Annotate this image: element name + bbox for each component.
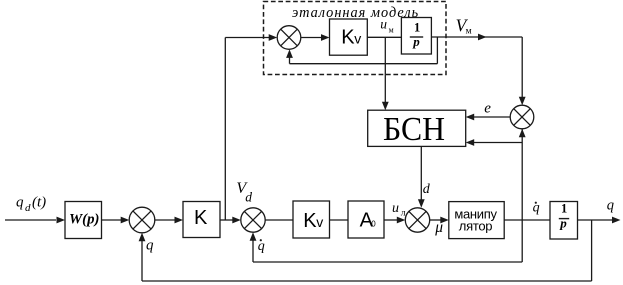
block Kv bottom [293,201,330,238]
wire Kv top to 1/p top, signal u_m [367,36,401,38]
svg-text:л: л [401,208,406,218]
wire S5 to BSN, signal e [474,116,511,118]
svg-text:K: K [341,27,355,49]
svg-text:1: 1 [561,202,567,216]
svg-text:0: 0 [371,220,376,229]
block BSN [368,110,466,146]
wire BSN output d down to S3 [420,146,422,199]
svg-text:1: 1 [414,20,420,34]
summing junction S5 (e) [510,105,534,129]
wire S1 to K [155,219,175,221]
svg-text:d: d [245,189,252,204]
svg-text:q: q [607,197,614,213]
wire u_m branch down to BSN [384,37,386,102]
svg-text:БСН: БСН [383,111,445,148]
summing junction S3 (mu) [405,208,429,232]
dashed box reference model [264,2,447,75]
wire S2 to Kv [265,219,293,221]
svg-text:u: u [380,17,387,32]
svg-text:(t): (t) [32,195,46,211]
wire q feedback bottom [142,280,592,282]
svg-text:q: q [16,195,24,211]
wire manipulator to integrator (crosses q-dot branch) [504,219,550,221]
svg-text:e: e [484,101,491,117]
wire V_m output [431,36,522,38]
wire q-dot feedback [521,130,523,263]
svg-text:K: K [303,210,317,232]
svg-text:K: K [194,207,208,229]
wire input q_d(t) [5,219,56,221]
wire branch V_d up to model input [224,38,226,221]
svg-text:μ: μ [434,219,443,236]
wire A0 to S3, signal u [384,219,397,221]
wire output q [578,219,613,221]
block manipulator [449,202,504,239]
svg-text:v: v [316,214,323,230]
wire into model summer [225,37,269,39]
svg-text:q: q [146,238,154,254]
wire S3 to manipulator [430,219,441,221]
block 1/p top [401,18,431,55]
svg-text:d: d [423,182,431,197]
block 1/p bottom [550,202,578,240]
svg-text:u: u [392,201,399,216]
svg-text:эталонная модель: эталонная модель [292,5,419,21]
wire q-dot into BSN lower [474,142,523,144]
block K [183,202,220,238]
summing junction S2 (V_d) [241,208,265,232]
svg-text:q: q [258,239,265,254]
svg-text:м: м [389,25,394,34]
svg-text:v: v [354,31,361,47]
wire K to S2 with branch node V_d [220,219,233,221]
summing junction S1 (q) [129,207,155,233]
svg-text:W(p): W(p) [69,211,99,227]
svg-text:d: d [25,202,31,214]
summing junction S4 (model) [277,26,301,50]
svg-text:м: м [466,26,472,36]
wire branch q down [591,220,593,281]
wire S4 to Kv top [301,37,322,39]
svg-text:p: p [559,216,567,231]
svg-text:p: p [412,34,420,49]
svg-text:лятор: лятор [459,218,492,233]
block Kv top [330,19,368,55]
wire W(p) to node q sum [102,219,122,221]
wire Kv to A0 [330,219,349,221]
block W(p) [65,202,102,239]
block A0 [348,201,384,238]
wire model feedback [436,37,438,64]
